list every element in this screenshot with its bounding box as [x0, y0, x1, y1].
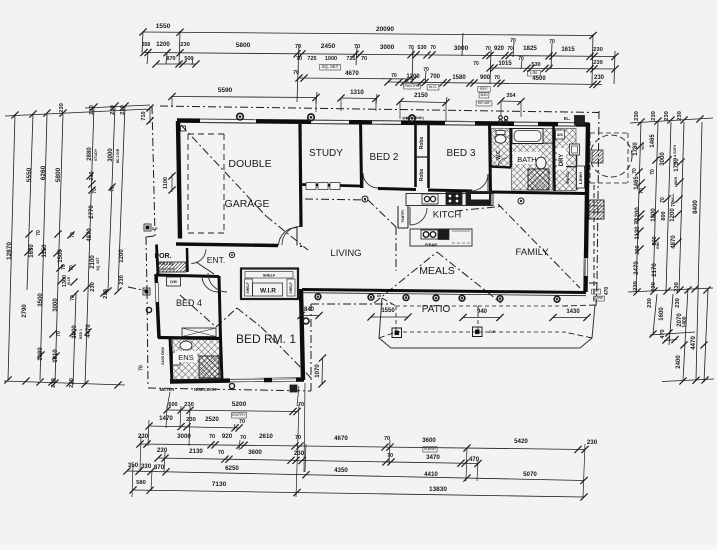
bath label bg — [513, 152, 541, 164]
wall study right / bed2 left — [361, 120, 362, 188]
svg-text:1130: 1130 — [635, 226, 641, 240]
kitchen roof dash segment — [455, 207, 500, 212]
dry label bg — [557, 148, 566, 170]
svg-text:700: 700 — [430, 74, 441, 80]
svg-text:1615: 1615 — [561, 47, 575, 53]
svg-text:4670: 4670 — [334, 435, 348, 442]
svg-text:230: 230 — [594, 75, 605, 81]
small eave circles — [146, 307, 151, 312]
wall left exterior (garage) — [178, 121, 180, 239]
svg-text:SHELF: SHELF — [263, 274, 276, 278]
svg-text:210: 210 — [89, 171, 95, 180]
dp boxes — [144, 224, 151, 231]
svg-text:2400: 2400 — [676, 355, 682, 369]
svg-text:4500: 4500 — [532, 76, 546, 82]
svg-text:N/SECOCK: N/SECOCK — [194, 387, 216, 392]
kitchen bench — [406, 194, 493, 206]
svg-text:70: 70 — [639, 188, 645, 194]
bed2 door arc — [363, 173, 378, 188]
svg-text:6250: 6250 — [225, 465, 239, 472]
svg-text:BED RM. 1: BED RM. 1 — [236, 332, 296, 346]
wir — [241, 269, 298, 300]
svg-text:230: 230 — [186, 417, 196, 423]
svg-text:4670: 4670 — [345, 70, 359, 77]
patio hip dashes — [382, 298, 396, 306]
svg-text:2770: 2770 — [89, 205, 95, 219]
svg-text:710: 710 — [141, 111, 147, 120]
fan symbols — [362, 196, 368, 202]
svg-text:5800: 5800 — [55, 167, 62, 182]
bed4 closet — [167, 277, 181, 286]
svg-text:SQ. SET: SQ. SET — [322, 64, 339, 69]
svg-text:SCN 2.1x0.9: SCN 2.1x0.9 — [157, 267, 175, 271]
wc door arc — [498, 158, 507, 167]
wall bedrm1 right — [301, 289, 303, 380]
svg-text:230: 230 — [593, 60, 603, 66]
svg-text:230: 230 — [119, 275, 125, 285]
svg-text:230: 230 — [120, 105, 126, 115]
svg-text:DRY: DRY — [559, 154, 565, 166]
svg-text:70: 70 — [92, 188, 98, 194]
eave outline left — [152, 106, 155, 236]
wall dry/linen divider — [576, 145, 579, 190]
svg-text:1100: 1100 — [163, 177, 169, 189]
wall living/family front (south) — [302, 290, 586, 293]
svg-text:D/W: D/W — [170, 280, 177, 284]
svg-text:230: 230 — [647, 298, 653, 308]
ens floor hatch — [173, 338, 220, 381]
svg-text:1430: 1430 — [566, 309, 580, 315]
svg-text:70: 70 — [56, 331, 62, 337]
svg-text:1980: 1980 — [38, 347, 44, 361]
svg-text:70: 70 — [70, 295, 76, 301]
svg-text:Linen: Linen — [578, 172, 583, 184]
svg-text:BED 4: BED 4 — [176, 298, 202, 308]
svg-text:D.P: D.P — [593, 289, 599, 293]
svg-text:4870: 4870 — [87, 228, 93, 242]
wall laundry/bath bottom (family top) — [491, 192, 586, 194]
svg-text:870: 870 — [154, 464, 165, 471]
bottom block vertical connectors — [296, 404, 299, 497]
circle cluster near wc window — [499, 116, 503, 120]
svg-text:230: 230 — [664, 111, 670, 121]
bath room floor hatch — [512, 143, 553, 190]
svg-text:1200: 1200 — [635, 207, 641, 221]
svg-text:ENT.: ENT. — [207, 255, 225, 265]
wall garage right / hall — [300, 124, 301, 227]
svg-text:230: 230 — [103, 289, 109, 299]
svg-text:5550: 5550 — [26, 167, 33, 182]
roof line family diagonal — [498, 204, 580, 288]
bed4 robe — [182, 328, 216, 337]
bed4 door arc — [202, 276, 218, 292]
linen closet — [577, 166, 585, 188]
svg-text:230: 230 — [674, 282, 680, 292]
svg-text:3000: 3000 — [53, 298, 59, 312]
svg-text:840: 840 — [304, 307, 315, 313]
svg-text:3000: 3000 — [454, 45, 469, 52]
svg-text:230: 230 — [634, 111, 640, 121]
svg-text:3600: 3600 — [422, 437, 436, 444]
svg-text:3000: 3000 — [660, 152, 666, 166]
ens label bg — [175, 351, 197, 362]
porch/entry divider wall — [186, 248, 189, 272]
svg-text:3470: 3470 — [426, 454, 440, 461]
svg-text:SQ. SET: SQ. SET — [96, 256, 100, 270]
svg-text:8400: 8400 — [692, 200, 699, 214]
svg-text:ENS: ENS — [178, 353, 193, 362]
svg-text:SHELF: SHELF — [289, 282, 293, 293]
svg-text:70: 70 — [494, 75, 500, 81]
svg-text:2520: 2520 — [205, 416, 219, 423]
top block vertical connectors — [142, 32, 143, 53]
svg-text:70: 70 — [430, 45, 436, 51]
svg-text:800: 800 — [661, 211, 667, 220]
svg-text:300: 300 — [635, 245, 641, 254]
svg-text:70: 70 — [671, 201, 677, 207]
svg-text:STUDY: STUDY — [94, 148, 98, 161]
svg-text:230: 230 — [587, 439, 598, 446]
svg-text:3000: 3000 — [108, 148, 114, 162]
svg-text:725: 725 — [346, 56, 355, 62]
svg-text:1000: 1000 — [325, 56, 337, 62]
svg-text:REF.: REF. — [480, 86, 489, 91]
wir shelves — [245, 272, 293, 279]
kitchen dark band w slot — [466, 192, 491, 206]
svg-text:5070: 5070 — [523, 471, 537, 478]
patio outline — [379, 298, 595, 348]
svg-text:230: 230 — [110, 105, 116, 115]
svg-text:470: 470 — [604, 287, 610, 296]
svg-text:POR 2 S/L: POR 2 S/L — [158, 262, 173, 266]
svg-text:2880: 2880 — [87, 147, 93, 161]
svg-text:230: 230 — [294, 450, 305, 457]
svg-text:2170: 2170 — [652, 263, 658, 277]
svg-text:1630: 1630 — [29, 244, 35, 258]
svg-text:PATIO: PATIO — [422, 304, 451, 315]
kitchen cooktop dark — [446, 193, 462, 205]
svg-text:5800: 5800 — [236, 42, 251, 49]
svg-text:STUDY: STUDY — [309, 148, 343, 159]
left dimension block leaders/ticks — [5, 109, 150, 116]
svg-text:LINEN: LINEN — [674, 176, 678, 187]
svg-text:5590: 5590 — [218, 87, 233, 94]
svg-text:2610: 2610 — [259, 433, 273, 440]
bed4/ens divider wall with robe — [158, 338, 220, 339]
svg-text:70: 70 — [384, 436, 390, 442]
wall ens/bedrm1 divider — [221, 337, 223, 381]
svg-text:1200: 1200 — [651, 208, 657, 222]
roof line meals tent — [374, 252, 437, 303]
svg-text:BED 1: BED 1 — [79, 329, 83, 339]
wall bed3 bottom — [428, 190, 472, 191]
EL meter box — [575, 116, 585, 126]
kitchen sink unit — [422, 194, 438, 204]
svg-text:POR.: POR. — [154, 253, 171, 260]
eave outline top — [160, 106, 599, 113]
svg-text:230: 230 — [651, 111, 657, 121]
svg-text:Robe: Robe — [419, 169, 425, 182]
svg-text:230: 230 — [651, 282, 657, 292]
family window opening right wall — [584, 258, 588, 276]
wall bath right / dry left — [554, 122, 555, 191]
wall bed4 top — [156, 275, 219, 277]
svg-text:900: 900 — [480, 75, 491, 81]
svg-text:W.O.: W.O. — [429, 85, 437, 89]
ens shower crosshatch — [199, 356, 219, 378]
svg-text:B'BAR: B'BAR — [425, 243, 437, 247]
svg-text:KITCH: KITCH — [433, 210, 462, 221]
svg-text:70: 70 — [36, 230, 42, 236]
bathtub — [512, 129, 543, 144]
svg-text:1500: 1500 — [58, 249, 64, 263]
right dimension block vertical lines — [636, 122, 641, 292]
svg-text:70: 70 — [61, 264, 67, 270]
svg-text:1400: 1400 — [682, 316, 688, 327]
patio posts square — [392, 328, 402, 338]
svg-text:70: 70 — [209, 434, 215, 440]
svg-text:HALL: HALL — [671, 193, 675, 202]
patio inner dashed roof rect — [396, 305, 478, 307]
rainwater tank dashed circle — [590, 135, 632, 177]
svg-text:GARAGE: GARAGE — [225, 198, 270, 210]
svg-text:3500: 3500 — [38, 293, 44, 307]
svg-text:Robe: Robe — [419, 137, 425, 150]
svg-text:W.I.R: W.I.R — [67, 276, 71, 285]
wall bed4 right — [219, 276, 221, 338]
WP / TANK boxes bottom right — [592, 289, 601, 294]
wall right exterior (family) — [586, 123, 589, 292]
svg-text:230: 230 — [677, 111, 683, 121]
svg-text:1825: 1825 — [523, 45, 537, 52]
svg-text:12870: 12870 — [6, 242, 13, 260]
shower crosshatch — [528, 169, 549, 190]
eave outline bottom wing — [148, 388, 311, 391]
svg-text:940: 940 — [477, 309, 488, 315]
svg-text:70: 70 — [239, 419, 245, 425]
svg-text:70: 70 — [296, 56, 302, 62]
svg-text:70: 70 — [510, 38, 516, 44]
svg-text:920: 920 — [222, 433, 233, 440]
svg-text:230: 230 — [90, 282, 96, 292]
AC unit hatched box — [589, 200, 604, 219]
svg-text:330: 330 — [141, 463, 152, 470]
svg-text:6260: 6260 — [40, 165, 47, 180]
wall study bottom + windows — [301, 185, 360, 187]
svg-text:SHELF: SHELF — [246, 282, 250, 293]
bed4 window on left wall — [155, 283, 159, 302]
svg-text:70: 70 — [361, 56, 367, 62]
svg-text:70: 70 — [473, 61, 479, 67]
svg-text:BATH: BATH — [517, 155, 536, 164]
bath basin — [536, 157, 546, 169]
svg-text:820: 820 — [557, 133, 563, 137]
svg-text:D.P: D.P — [152, 227, 158, 231]
svg-text:PANTRY: PANTRY — [401, 209, 405, 223]
svg-text:20090: 20090 — [376, 26, 394, 33]
svg-text:1465: 1465 — [650, 134, 656, 148]
svg-text:70: 70 — [650, 169, 656, 175]
ent to hall door arc — [208, 273, 227, 292]
garage car bay dashed rect — [188, 133, 224, 135]
svg-text:230: 230 — [89, 105, 95, 115]
svg-text:WP.45F: WP.45F — [478, 101, 491, 105]
garage vehicle door arc — [279, 227, 298, 245]
svg-text:230: 230 — [593, 47, 603, 53]
svg-text:1600: 1600 — [659, 307, 665, 321]
svg-text:920: 920 — [494, 46, 505, 52]
svg-text:LIVING: LIVING — [330, 248, 361, 259]
robes between bed2 and bed3 — [414, 124, 417, 187]
kitchen island bench — [410, 229, 472, 246]
svg-text:4350: 4350 — [334, 467, 348, 474]
svg-text:1200: 1200 — [119, 249, 125, 263]
wall garage front — [176, 244, 278, 246]
svg-text:LIN.: LIN. — [530, 70, 538, 75]
pantry — [397, 206, 399, 228]
svg-text:D.P: D.P — [489, 330, 496, 334]
svg-text:70: 70 — [110, 186, 116, 192]
svg-text:1310: 1310 — [350, 89, 364, 96]
svg-text:70: 70 — [391, 73, 397, 79]
ens toilet — [180, 341, 192, 350]
svg-text:354: 354 — [506, 93, 516, 99]
svg-text:3900: 3900 — [72, 325, 78, 339]
svg-text:70: 70 — [507, 46, 513, 52]
bedrm1 bottom window opening 2 — [272, 378, 296, 382]
svg-text:2150: 2150 — [414, 92, 428, 99]
svg-text:2100 D/W: 2100 D/W — [160, 347, 165, 365]
svg-text:W.C.: W.C. — [641, 142, 645, 149]
svg-text:1730: 1730 — [674, 158, 680, 172]
posts circles along front wall — [315, 294, 321, 300]
svg-text:70: 70 — [70, 232, 76, 238]
wall top exterior — [177, 121, 589, 125]
svg-text:5420: 5420 — [514, 438, 528, 445]
svg-text:470: 470 — [660, 329, 666, 338]
svg-text:1070: 1070 — [315, 364, 321, 378]
ens basin — [173, 352, 181, 365]
svg-text:230: 230 — [675, 298, 681, 308]
wall wc/bath divider — [509, 128, 512, 167]
downpipe circles on top wall — [237, 113, 244, 120]
laundry room hatch — [555, 129, 576, 191]
svg-text:870: 870 — [166, 56, 175, 62]
leader stubs from dim rows to walls — [171, 97, 173, 107]
svg-text:METER: METER — [160, 387, 175, 392]
svg-text:70: 70 — [660, 197, 666, 203]
svg-text:1550: 1550 — [156, 23, 171, 30]
svg-text:70: 70 — [240, 435, 246, 441]
svg-text:70: 70 — [139, 365, 145, 371]
wall ens left — [170, 337, 172, 382]
svg-text:70: 70 — [634, 219, 640, 225]
island dark appliance — [438, 230, 449, 240]
svg-text:◎◉ P(TANK): ◎◉ P(TANK) — [402, 116, 425, 120]
svg-text:70: 70 — [218, 450, 224, 456]
svg-text:MEALS: MEALS — [419, 265, 455, 277]
garage corner downpipe box — [181, 126, 186, 131]
svg-text:EL.: EL. — [564, 116, 571, 121]
left dimension block vertical lines — [8, 114, 15, 380]
svg-text:230: 230 — [138, 433, 149, 440]
wc toilet — [495, 135, 506, 143]
svg-text:3600: 3600 — [248, 449, 262, 456]
roof line living horizontal — [305, 199, 368, 200]
svg-text:1200: 1200 — [156, 41, 170, 48]
svg-text:2470: 2470 — [634, 261, 640, 275]
svg-text:W.C: W.C — [496, 150, 502, 160]
porch steps hatch — [158, 262, 186, 272]
eave outline right — [597, 111, 599, 283]
svg-text:1150: 1150 — [42, 244, 48, 258]
svg-text:BD 2 B/R: BD 2 B/R — [116, 148, 120, 163]
svg-text:230: 230 — [180, 42, 190, 48]
svg-text:230: 230 — [51, 378, 57, 388]
svg-text:ENTRY: ENTRY — [232, 412, 246, 417]
svg-text:2130: 2130 — [189, 448, 203, 455]
svg-text:70: 70 — [518, 56, 524, 62]
svg-text:13830: 13830 — [429, 486, 447, 493]
svg-text:70: 70 — [69, 265, 75, 271]
svg-text:BNK: BNK — [656, 241, 660, 249]
svg-text:1200: 1200 — [406, 74, 420, 80]
roof line bedrm1 tent — [216, 308, 237, 327]
svg-text:230: 230 — [69, 378, 75, 388]
svg-text:230: 230 — [157, 447, 168, 454]
svg-text:725: 725 — [307, 56, 316, 62]
svg-text:W.I.R: W.I.R — [260, 288, 276, 295]
svg-text:1200: 1200 — [670, 208, 676, 222]
top wall window openings — [200, 119, 256, 123]
right block leaders/ticks — [630, 118, 713, 123]
svg-text:4470: 4470 — [690, 336, 697, 350]
wall bed3 right / wc left — [490, 122, 491, 194]
island sink unit — [421, 230, 438, 239]
svg-text:FAMILY: FAMILY — [515, 247, 549, 258]
svg-text:7130: 7130 — [212, 481, 227, 488]
svg-text:70: 70 — [295, 44, 301, 50]
svg-text:2450: 2450 — [321, 43, 336, 50]
wc room hatch — [492, 129, 511, 167]
svg-text:70: 70 — [387, 453, 393, 459]
svg-text:DOUBLE: DOUBLE — [228, 158, 271, 170]
svg-text:4870: 4870 — [671, 235, 677, 249]
svg-text:580: 580 — [136, 480, 146, 486]
svg-text:1015: 1015 — [498, 61, 512, 67]
wall bed2 bottom — [378, 189, 416, 190]
pantry door arc — [410, 208, 427, 225]
laundry tub — [570, 144, 580, 155]
roof line garage diagonal — [181, 125, 266, 216]
bed3 door arc — [471, 174, 488, 191]
svg-text:BED 2: BED 2 — [370, 152, 399, 163]
svg-text:358: 358 — [142, 42, 151, 48]
svg-text:70: 70 — [632, 168, 638, 174]
wall wing bottom (bedrm1/ens) — [170, 380, 304, 382]
svg-text:1780: 1780 — [633, 142, 639, 156]
svg-text:230: 230 — [59, 103, 65, 113]
svg-text:WM S/D: WM S/D — [566, 171, 570, 184]
svg-text:5200: 5200 — [232, 401, 247, 408]
garage internal door arc — [282, 226, 301, 245]
svg-text:65: 65 — [377, 294, 381, 298]
bedrm1 bottom window opening — [230, 378, 264, 382]
svg-text:1580: 1580 — [452, 75, 466, 81]
svg-text:530: 530 — [417, 45, 426, 51]
porch left wall — [157, 245, 159, 276]
svg-text:2790: 2790 — [22, 304, 28, 318]
